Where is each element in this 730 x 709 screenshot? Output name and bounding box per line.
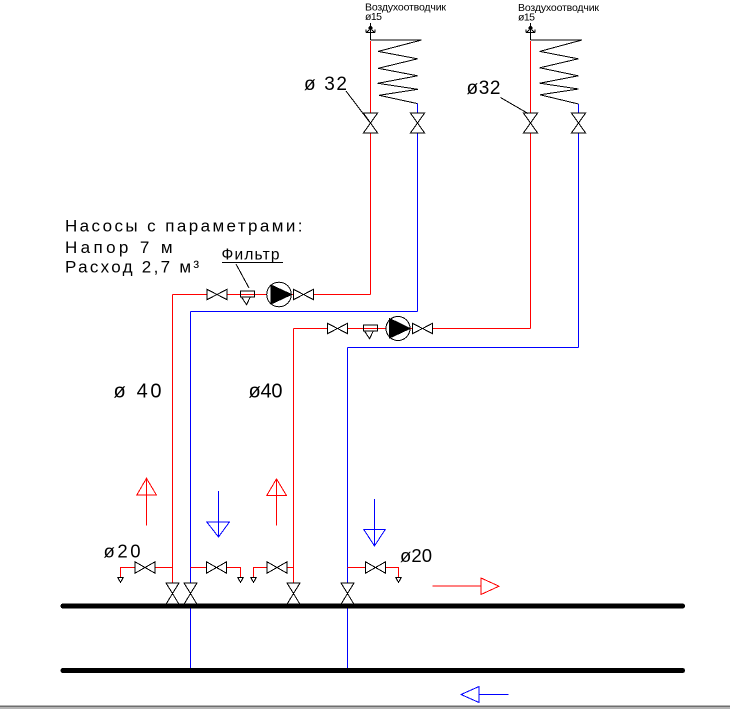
valve V10 stub b <box>207 562 227 573</box>
svg-text:ø15: ø15 <box>518 12 535 24</box>
leader line Фильтр <box>236 264 249 288</box>
return riser 1 (blue) <box>190 312 192 671</box>
pump P2 <box>386 317 410 341</box>
filter F2 <box>364 325 378 339</box>
svg-text:ø 40: ø 40 <box>114 381 162 403</box>
svg-text:ø15: ø15 <box>365 11 382 23</box>
flow arrow up red 2 <box>267 479 287 526</box>
valve V4 coil2 return <box>572 113 586 133</box>
svg-text:ø20: ø20 <box>400 545 432 566</box>
return main (thick) <box>63 668 683 673</box>
return pipe coil 1 horizontal <box>191 311 418 313</box>
return riser 2 (blue) <box>347 348 349 671</box>
leader line ø32 label 2 <box>501 98 529 114</box>
drain b arrow <box>238 578 243 583</box>
drain stub a pipe (red) <box>121 568 173 579</box>
drain stub d pipe (red) <box>348 568 399 579</box>
flow arrow down blue 1 <box>207 491 230 537</box>
valve V7 pump row 2 left <box>328 323 348 333</box>
valve V9 stub a <box>135 562 155 573</box>
pump P1 <box>267 282 292 307</box>
valve V11 stub c <box>267 562 287 573</box>
valve V6 pump row 1 right <box>294 289 314 299</box>
heating coil 1 <box>371 40 422 104</box>
svg-text:ø 32: ø 32 <box>304 74 347 95</box>
return pipe coil 1 (blue) down <box>417 104 419 312</box>
valve V13 bottom red riser 1 <box>166 583 179 604</box>
svg-text:Расход 2,7 м³: Расход 2,7 м³ <box>65 258 199 277</box>
valve V14 bottom blue riser 1 <box>184 583 197 604</box>
svg-text:ø40: ø40 <box>249 381 283 403</box>
valve V8 pump row 2 right <box>413 323 433 333</box>
air vent 1 symbol <box>369 26 373 28</box>
valve V5 pump row 1 left <box>207 289 227 299</box>
return pipe coil 2 horizontal <box>348 347 579 349</box>
leader line ø32 label 1 <box>346 91 370 122</box>
flow arrow right red (supply main) <box>433 578 500 595</box>
supply drop 2 (red) <box>293 329 295 607</box>
valve V15 bottom red riser 2 <box>287 583 300 604</box>
pump row 2 pipe (red) <box>294 328 531 330</box>
supply drop 1 (red) <box>172 295 174 607</box>
flow arrow left blue (return main) <box>461 687 509 703</box>
drain a arrow <box>118 578 123 583</box>
air vent 1 stem <box>366 23 375 40</box>
filter F1 <box>241 291 255 305</box>
drain stub c pipe (red) <box>254 568 294 579</box>
flow arrow down blue 2 <box>364 499 385 546</box>
svg-text:Фильтр: Фильтр <box>222 247 280 264</box>
air vent 2 stem <box>526 23 535 40</box>
return pipe coil 2 (blue) down <box>578 104 580 348</box>
valve V12 stub d <box>366 562 386 573</box>
heating coil 2 <box>531 40 583 104</box>
pump row 1 pipe (red) <box>173 294 371 296</box>
window edge grey line <box>0 705 730 707</box>
svg-text:ø32: ø32 <box>467 78 501 99</box>
valve V1 coil1 supply <box>364 113 378 133</box>
valve V16 bottom blue riser 2 <box>341 583 354 604</box>
drain d arrow <box>396 578 401 583</box>
svg-text:Напор 7 м: Напор 7 м <box>65 238 173 257</box>
supply riser to coil 2 (red) <box>530 41 532 329</box>
underline Фильтр <box>222 262 283 264</box>
valve V3 coil2 supply <box>524 113 538 133</box>
supply riser to coil 1 (red) <box>370 41 372 295</box>
supply main (thick) <box>63 604 683 609</box>
air vent 2 symbol <box>529 26 533 28</box>
valve V2 coil1 return <box>411 113 425 133</box>
drain c arrow <box>251 578 256 583</box>
flow arrow up red 1 <box>137 478 157 525</box>
svg-text:ø20: ø20 <box>104 541 141 562</box>
drain stub b pipe (red) <box>191 568 241 579</box>
